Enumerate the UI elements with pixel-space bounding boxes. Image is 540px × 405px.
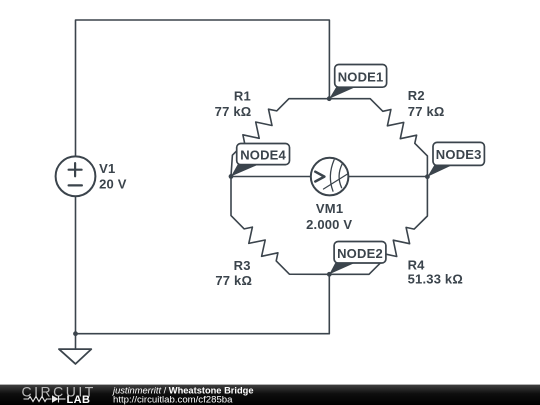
svg-text:LAB: LAB xyxy=(67,394,91,405)
svg-text:NODE4: NODE4 xyxy=(240,148,286,163)
svg-text:R3: R3 xyxy=(234,258,251,273)
svg-text:R1: R1 xyxy=(234,89,251,104)
svg-text:V1: V1 xyxy=(99,161,115,176)
junction dot NODE4 xyxy=(229,174,234,179)
svg-text:NODE2: NODE2 xyxy=(337,246,383,261)
wire V1 bottom to ground junction xyxy=(75,196,77,334)
wire voltmeter to NODE3 xyxy=(348,176,427,178)
node NODE4 callout xyxy=(231,144,290,177)
junction dot ground net xyxy=(73,331,78,336)
svg-text:R4: R4 xyxy=(408,257,426,272)
resistor R1 xyxy=(231,99,329,177)
svg-text:77 kΩ: 77 kΩ xyxy=(215,273,252,288)
svg-text:R2: R2 xyxy=(408,88,425,103)
wire top loop V1 to NODE1 xyxy=(76,20,330,157)
svg-text:51.33 kΩ: 51.33 kΩ xyxy=(408,272,463,287)
svg-text:NODE1: NODE1 xyxy=(338,69,384,84)
junction dot NODE2 xyxy=(327,272,332,277)
node NODE1 callout xyxy=(329,65,386,99)
logo resistor-diode glyph xyxy=(24,396,66,403)
voltmeter VM1 xyxy=(311,158,349,196)
junction dot NODE3 xyxy=(425,174,430,179)
wire bottom to NODE2 xyxy=(76,274,330,333)
wire NODE4 to voltmeter xyxy=(231,176,311,178)
node NODE2 callout xyxy=(329,242,386,275)
svg-text:2.000 V: 2.000 V xyxy=(306,217,352,232)
resistor R2 xyxy=(329,99,427,177)
resistor R3 xyxy=(231,176,329,274)
svg-text:77 kΩ: 77 kΩ xyxy=(215,104,252,119)
svg-text:http://circuitlab.com/cf285ba: http://circuitlab.com/cf285ba xyxy=(113,394,233,405)
voltage source V1 xyxy=(56,156,96,196)
ground xyxy=(59,349,91,364)
svg-text:77 kΩ: 77 kΩ xyxy=(408,104,445,119)
svg-text:NODE3: NODE3 xyxy=(436,147,482,162)
wire ground stub xyxy=(75,334,77,349)
junction dot NODE1 xyxy=(327,96,332,101)
svg-text:20 V: 20 V xyxy=(99,176,127,191)
svg-text:VM1: VM1 xyxy=(316,201,343,216)
node NODE3 callout xyxy=(427,142,484,176)
resistor R4 xyxy=(329,177,427,275)
